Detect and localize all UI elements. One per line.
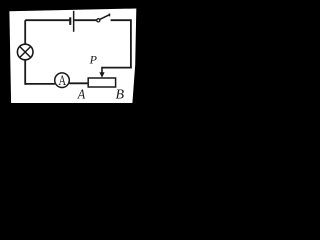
switch S1 contact tick <box>109 14 111 17</box>
switch S1 lever <box>100 15 110 20</box>
rheostat R1 body <box>88 78 115 87</box>
white schematic panel <box>9 9 136 104</box>
svg-text:P: P <box>89 52 98 66</box>
svg-text:B: B <box>116 88 125 103</box>
wire battery to switch <box>74 19 96 21</box>
switch S1 pivot <box>97 19 100 22</box>
battery B1 short plate (negative) <box>69 17 71 25</box>
wire wiper horizontal <box>102 67 132 69</box>
svg-text:A: A <box>59 71 67 88</box>
wire left side upper segment <box>24 20 26 44</box>
wire bottom-left corner to ammeter <box>25 83 55 85</box>
black background <box>0 0 147 139</box>
wire switch to top-right corner <box>111 19 131 21</box>
wire top-left to battery <box>25 19 69 21</box>
battery B1 long plate (positive) <box>73 11 75 32</box>
lamp L1 cross <box>20 47 31 58</box>
wiper arrowhead <box>99 72 104 78</box>
svg-text:A: A <box>77 86 86 102</box>
lamp L1 circle <box>17 44 33 60</box>
wire right side down <box>130 19 132 67</box>
wiper stem <box>101 67 103 73</box>
ammeter A1 circle <box>55 73 70 88</box>
wire left side lower segment <box>24 60 26 85</box>
wire ammeter to rheostat <box>69 82 88 84</box>
